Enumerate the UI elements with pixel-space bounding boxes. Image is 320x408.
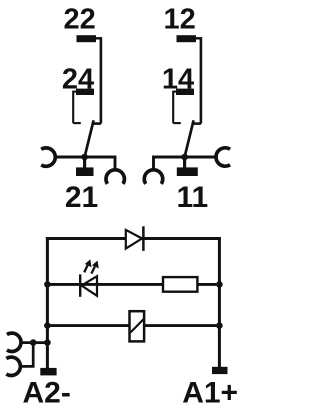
relay coil K (130, 311, 145, 341)
wire: common stub down to terminal 21 (83, 157, 86, 168)
LED emission arrow 1 (84, 265, 87, 272)
svg-text:12: 12 (163, 3, 195, 35)
wire: common to left socket (54, 156, 85, 159)
switch arm (movable contact) (85, 120, 94, 157)
resistor R1 (163, 277, 197, 292)
node: socket 2 riser / socket wire (30, 339, 37, 346)
diode V1 cathode bar (142, 226, 145, 251)
wire: terminal 24 bracket to NO contact (73, 91, 76, 93)
junction node at common 11 (181, 154, 188, 161)
NC fixed contact foot of 22 (92, 122, 101, 125)
A2 socket contact 2 (6, 357, 20, 375)
wire: common to right socket (185, 156, 217, 159)
wire: A2 socket 2 riser (21, 343, 34, 367)
socket contact (plug-in base) left of 21 (41, 148, 55, 166)
svg-text:A2-: A2- (23, 377, 71, 408)
terminal 12 blade (177, 35, 197, 42)
terminal A1 blade (212, 367, 228, 374)
wire: terminal 12 to NC contact line (195, 37, 201, 39)
wire: coil branch (47, 324, 219, 327)
node: socket wire / A2 bus (44, 339, 51, 346)
NC fixed contact foot of 12 (192, 122, 201, 125)
wire: A2 socket 1 to bus (22, 341, 48, 344)
terminal 14 blade (176, 89, 194, 95)
terminal 24 blade (76, 89, 94, 95)
svg-text:21: 21 (65, 181, 98, 214)
NO fixed contact foot of 24 (73, 122, 81, 124)
terminal 21 blade (76, 167, 94, 176)
svg-text:11: 11 (176, 181, 208, 214)
wire: left bus A2 (46, 237, 49, 368)
LED emission arrow 2 (91, 267, 94, 274)
switch arm (movable contact) (185, 120, 194, 157)
wire: NC contact vertical line from 22 (100, 37, 103, 124)
coil diagonal stroke (130, 319, 144, 333)
junction node at common 21 (81, 154, 88, 161)
wire: middle branch (LED + resistor) (47, 283, 219, 286)
wire: right bus A1 (218, 237, 221, 367)
LED cathode bar (79, 274, 81, 296)
LED triangle (82, 276, 98, 296)
socket contact below left of 11 (144, 170, 162, 184)
node: resistor branch / right bus (216, 281, 223, 288)
suppressor diode V1 (126, 230, 142, 249)
svg-text:A1+: A1+ (182, 377, 238, 408)
node: coil branch / left bus (44, 322, 51, 329)
terminal 11 blade (177, 167, 198, 176)
wire: terminal 14 bracket to NO contact (173, 91, 176, 93)
wire: NC contact vertical line from 12 (200, 37, 203, 124)
wire: common stub down to terminal 11 (183, 157, 186, 168)
node: LED branch / left bus (44, 281, 51, 288)
socket contact (plug-in base) right of 11 (216, 148, 230, 166)
svg-text:22: 22 (63, 3, 95, 35)
NO fixed contact foot of 14 (173, 122, 181, 124)
terminal 22 blade (77, 35, 97, 42)
A2 socket contact 1 (7, 333, 21, 351)
socket contact below right of 21 (106, 170, 124, 184)
wire: terminal 22 to NC contact line (95, 37, 101, 39)
node: coil branch / right bus (216, 322, 223, 329)
wire: common to lower-right socket (85, 157, 115, 171)
terminal A2 blade (40, 368, 56, 376)
wire: common to lower-left socket (154, 157, 185, 171)
wire: top branch (suppressor diode) (46, 237, 221, 240)
